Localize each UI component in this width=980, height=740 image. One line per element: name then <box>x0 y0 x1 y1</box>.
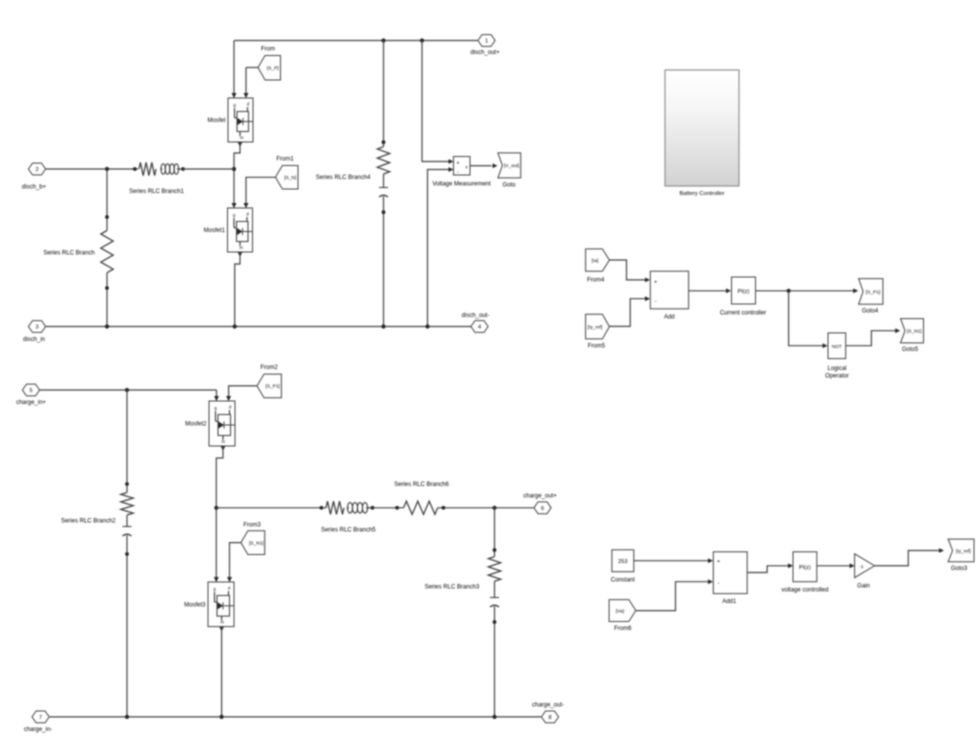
svg-text:-: - <box>655 299 657 305</box>
svg-text:m: m <box>221 620 225 625</box>
svg-text:charge_in-: charge_in- <box>24 727 52 733</box>
svg-text:+: + <box>717 559 720 565</box>
svg-text:Series RLC Branch: Series RLC Branch <box>43 251 94 257</box>
svg-text:[S_P1]: [S_P1] <box>265 384 279 390</box>
svg-text:[V_out]: [V_out] <box>504 163 519 169</box>
svg-text:Goto: Goto <box>502 183 516 189</box>
svg-text:Current controller: Current controller <box>720 311 766 317</box>
svg-text:5: 5 <box>29 388 32 394</box>
svg-text:1: 1 <box>485 39 488 45</box>
svg-text:Add1: Add1 <box>722 599 737 605</box>
svg-text:+: + <box>457 161 460 167</box>
svg-text:Constant: Constant <box>611 578 635 584</box>
svg-text:Logical: Logical <box>827 366 846 372</box>
svg-text:7: 7 <box>39 715 42 721</box>
svg-text:[S_N]: [S_N] <box>284 175 296 181</box>
svg-text:Goto4: Goto4 <box>862 309 879 315</box>
svg-text:[Va]: [Va] <box>616 608 624 614</box>
svg-text:charge_in+: charge_in+ <box>16 400 46 406</box>
svg-text:[Ia]: [Ia] <box>592 258 599 264</box>
svg-text:[S_N1]: [S_N1] <box>907 329 922 335</box>
svg-text:Voltage Measurement: Voltage Measurement <box>432 182 491 188</box>
svg-text:From1: From1 <box>276 157 294 163</box>
svg-text:Mosfet2: Mosfet2 <box>185 422 207 428</box>
svg-text:Mosfet: Mosfet <box>207 118 225 124</box>
svg-text:3: 3 <box>35 325 38 331</box>
svg-text:+: + <box>654 280 657 286</box>
svg-text:[Iy_ref]: [Iy_ref] <box>588 324 603 330</box>
svg-text:Mosfet3: Mosfet3 <box>184 602 206 608</box>
svg-text:253: 253 <box>618 559 627 565</box>
svg-text:charge_out+: charge_out+ <box>523 494 557 500</box>
svg-text:Mosfet1: Mosfet1 <box>204 228 226 234</box>
svg-text:Series RLC Branch2: Series RLC Branch2 <box>61 518 116 524</box>
svg-text:From5: From5 <box>588 344 606 350</box>
svg-text:-: - <box>718 581 720 587</box>
svg-text:[Iy_ref]: [Iy_ref] <box>956 548 971 554</box>
svg-text:m: m <box>222 439 226 444</box>
svg-text:disch_out-: disch_out- <box>462 313 490 319</box>
svg-text:PI(z): PI(z) <box>799 565 811 571</box>
svg-text:6: 6 <box>541 506 544 512</box>
svg-text:From4: From4 <box>587 277 605 283</box>
svg-text:Series RLC Branch4: Series RLC Branch4 <box>316 175 371 181</box>
svg-text:Goto3: Goto3 <box>951 566 968 572</box>
svg-text:-: - <box>457 170 459 176</box>
svg-text:Battery Controller: Battery Controller <box>679 191 724 197</box>
svg-text:PI(z): PI(z) <box>738 289 750 295</box>
svg-text:disch_b+: disch_b+ <box>22 185 47 191</box>
svg-text:From3: From3 <box>243 523 261 529</box>
svg-text:[S_P1]: [S_P1] <box>866 289 880 295</box>
svg-text:disch_out+: disch_out+ <box>470 50 500 56</box>
svg-text:Series RLC Branch3: Series RLC Branch3 <box>425 585 480 591</box>
svg-text:Goto5: Goto5 <box>902 347 919 353</box>
svg-text:-1: -1 <box>859 564 864 569</box>
svg-text:Add: Add <box>664 315 675 321</box>
svg-text:charge_out-: charge_out- <box>532 703 564 709</box>
svg-text:m: m <box>240 245 244 250</box>
svg-text:From2: From2 <box>260 365 278 371</box>
svg-text:8: 8 <box>548 715 551 721</box>
svg-text:From: From <box>261 47 275 53</box>
svg-text:voltage controlled: voltage controlled <box>781 588 828 594</box>
svg-text:m: m <box>240 135 244 140</box>
svg-text:2: 2 <box>35 167 38 173</box>
svg-text:Series RLC Branch6: Series RLC Branch6 <box>394 482 449 488</box>
svg-text:disch_in: disch_in <box>23 337 45 343</box>
svg-text:Series RLC Branch1: Series RLC Branch1 <box>129 189 184 195</box>
svg-text:Gain: Gain <box>857 584 870 590</box>
svg-text:4: 4 <box>478 325 481 331</box>
svg-text:[S_P]: [S_P] <box>267 65 279 71</box>
svg-text:NOT: NOT <box>832 344 842 349</box>
svg-text:[S_N1]: [S_N1] <box>249 540 264 546</box>
svg-text:Series RLC Branch5: Series RLC Branch5 <box>321 528 376 534</box>
svg-text:From6: From6 <box>614 626 632 632</box>
svg-text:Operator: Operator <box>825 374 849 380</box>
